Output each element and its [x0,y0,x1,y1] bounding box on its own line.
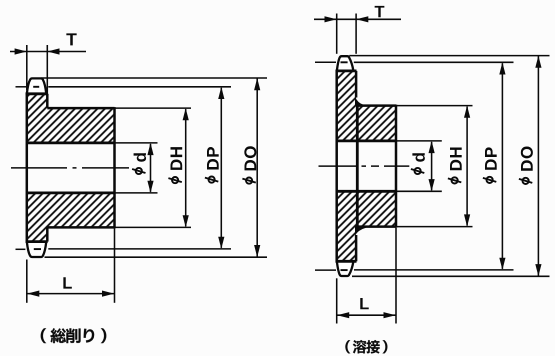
left: label phi d [132,153,146,174]
right sprocket: top tooth root line [336,70,357,73]
right sprocket: plate left face line [335,70,338,263]
left: extension line bore top [115,142,158,144]
right: T dimension line [314,18,401,20]
left: dimension line phi-DH [185,109,187,226]
left: pitch tick inside top tooth [33,86,39,88]
right sprocket: plate right edge above weld [355,71,358,98]
right: label phi DP [483,147,497,183]
left: dimension line phi-DO [256,78,258,257]
left: T extension line left [26,45,28,90]
right: extension line tooth tip top [349,55,549,57]
right: extension line hub bottom [396,226,473,228]
right: pitch tick left of top tooth [315,61,336,63]
left sprocket: left face line [26,93,29,243]
right: extension line tooth tip bottom [352,275,550,277]
right: L dimension line [337,314,396,316]
right: label T [375,6,385,17]
left: label T [66,33,76,45]
left: extension line hub bottom [115,226,192,228]
left: T extension line right [46,45,48,96]
left: pitch tick inside bottom tooth [34,248,41,250]
right: pitch tick inside bottom tooth [341,269,348,271]
right: label L [360,298,368,309]
left: label phi DH [168,147,182,183]
right sprocket: bore top line [337,139,396,142]
left: extension line pitch bottom [48,248,231,250]
left: pitch tick left of bottom tooth [16,248,26,250]
left sprocket: upper rim+hub hatched section [27,94,115,142]
left sprocket: rim right edge lower [46,227,49,241]
left: label phi DO [242,146,256,183]
right sprocket: plate right edge below weld [355,235,358,261]
left sprocket: bore top line [27,141,115,144]
right: extension line hub top [396,105,473,107]
left sprocket: hub right face [113,107,116,228]
right sprocket: bottom tooth profile [337,262,353,276]
left: dimension line phi-DP [220,88,222,248]
right: horizontal centerline (dash-dot) [319,165,410,167]
right sprocket: hub bottom surface [357,225,396,228]
right: L extension line right [395,228,397,324]
right sprocket: lower plate hatched section [337,191,356,261]
left: extension line tooth tip top [42,77,268,79]
right sprocket: upper weld fillet [355,97,364,107]
left: L extension line left [26,260,28,303]
left: label phi DP [205,147,219,183]
right: extension line pitch top [354,61,514,63]
left: extension line bore bottom [115,192,158,194]
right: label phi DO [519,147,533,184]
right sprocket: joint line plate/hub [356,106,359,227]
left sprocket: bore bottom line [27,191,115,194]
left: extension line hub top [115,107,192,109]
right: T extension line left [336,14,338,54]
right sprocket: upper hub hatched section [357,106,396,141]
right: pitch tick left of bottom tooth [315,269,336,271]
right sprocket: lower weld fillet [355,226,366,236]
right: label phi d [411,153,425,174]
left: caption (machined) [41,328,46,343]
left sprocket: top tooth root line [26,92,48,95]
right sprocket: bore bottom line [337,190,396,193]
right: dimension line phi-DH [466,107,468,226]
left: dimension line phi-d [150,144,152,192]
left sprocket: bottom tooth root line [26,240,48,243]
right: dimension line phi-DO [537,56,539,276]
right sprocket: upper plate hatched section [337,72,356,141]
right: extension line pitch bottom [354,269,514,271]
right sprocket: lower hub hatched section [357,191,396,226]
left sprocket: top tooth profile [27,78,46,93]
left sprocket: hub bottom surface [47,226,114,229]
right: label phi DH [448,147,462,183]
right sprocket: hub top surface [357,104,396,107]
right: caption (welded) [345,340,350,353]
right: T extension line right [355,14,357,54]
left: L dimension line [27,293,115,295]
right: dimension line phi-d [431,142,433,190]
left: T dimension line [10,51,86,53]
left sprocket: lower rim+hub hatched section [27,193,115,242]
left: pitch tick left of top tooth [16,86,27,88]
left: L extension line right [114,229,116,303]
left: label L [63,277,71,288]
left sprocket: bottom tooth profile [27,242,46,257]
left: extension line pitch top [48,86,231,88]
left: extension line tooth tip bottom [45,256,268,258]
right sprocket: bottom tooth root line [336,260,357,263]
right: extension line bore top [396,140,442,142]
right: L extension line left [336,278,338,323]
left sprocket: rim right edge upper [46,94,49,108]
right: dimension line phi-DP [501,63,503,269]
right sprocket: hub right face [395,105,398,228]
right: pitch tick inside top tooth [341,61,348,63]
left sprocket: hub top surface [47,107,114,110]
right sprocket: top tooth profile [337,56,353,70]
right: extension line bore bottom [396,190,442,192]
left: horizontal centerline (dash-dot) [11,167,129,169]
